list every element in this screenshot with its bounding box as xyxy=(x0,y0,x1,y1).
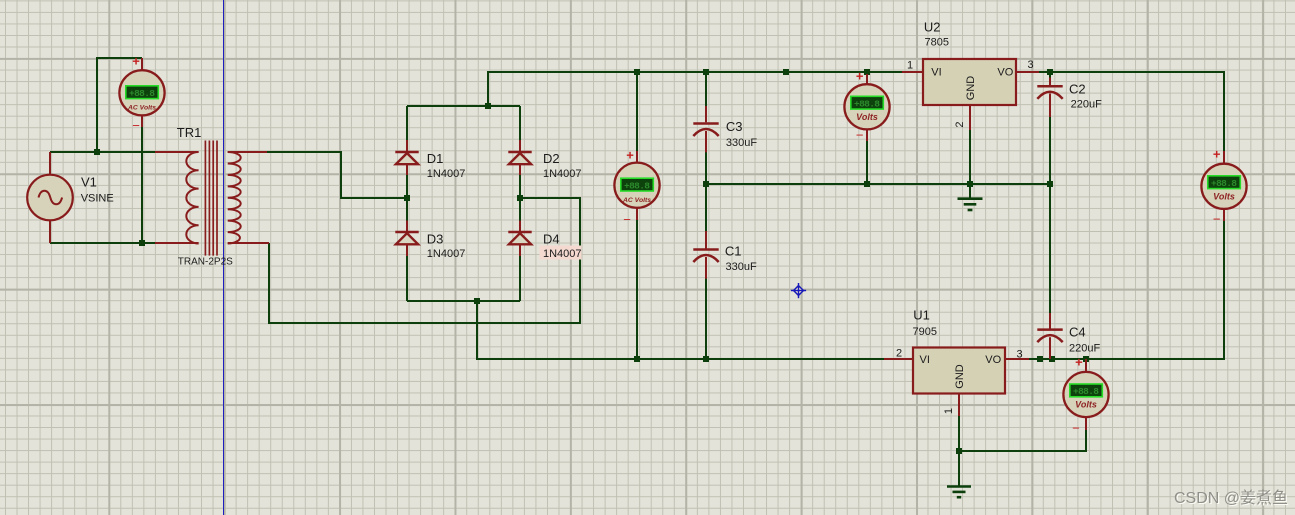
origin marker xyxy=(791,283,806,298)
wire bridge bottom rail xyxy=(407,300,520,302)
U1 output voltmeter pin stub top xyxy=(1085,359,1087,372)
svg-text:−: − xyxy=(1213,212,1221,227)
svg-text:AC Volts: AC Volts xyxy=(127,105,156,112)
svg-text:+88.8: +88.8 xyxy=(129,88,155,99)
U2 input voltmeter pin stub top xyxy=(866,74,868,85)
diode D3 xyxy=(395,232,418,244)
wire ground mid rail xyxy=(706,183,1050,185)
AC out voltmeter pin stub bottom xyxy=(636,207,638,220)
svg-text:D4: D4 xyxy=(543,232,560,247)
diode D4 xyxy=(508,232,531,244)
wire secondary top to bridge left node xyxy=(266,152,407,198)
junction top rail at C3 xyxy=(703,69,709,75)
svg-text:Volts: Volts xyxy=(856,112,878,122)
wire bridge left column middle (D1 anode to D3 cathode) xyxy=(406,174,408,223)
junction mid rail at C3 C1 xyxy=(703,181,709,187)
wire bridge right column upper (D2 cathode) xyxy=(519,106,521,141)
junction U1 ground node xyxy=(956,448,962,454)
svg-text:VO: VO xyxy=(997,67,1013,79)
wire U1 output voltmeter bottom to U1 GND junction xyxy=(959,429,1086,451)
capacitor C1 xyxy=(693,250,718,263)
diode D1 cathode stem xyxy=(406,140,408,152)
wire C2 bottom through mid rail to C4 top xyxy=(1049,116,1051,314)
junction mid rail at U2 ground xyxy=(967,181,973,187)
svg-text:TR1: TR1 xyxy=(177,125,202,140)
voltmeter M3 at U2 input xyxy=(844,84,889,129)
wire bridge right column middle (D2 anode to D4 cathode) xyxy=(519,174,521,223)
svg-text:VI: VI xyxy=(920,354,930,366)
wire U2 GND pin to mid rail xyxy=(969,129,971,184)
wire U2 VO rail to right voltmeter xyxy=(1038,72,1224,164)
diode D3 cathode stem xyxy=(406,221,408,233)
junction top rail at U2 input meter xyxy=(864,69,870,75)
junction top rail at AC out meter xyxy=(634,69,640,75)
right voltmeter pin stub top xyxy=(1223,151,1225,165)
junction output rail left xyxy=(1037,356,1043,362)
svg-text:Volts: Volts xyxy=(1075,400,1097,410)
svg-text:C3: C3 xyxy=(726,119,743,134)
V1 pin stub top xyxy=(49,152,51,175)
diode D1 xyxy=(395,152,418,164)
capacitor C1 top stem xyxy=(705,231,707,249)
svg-text:VSINE: VSINE xyxy=(81,193,114,205)
transformer secondary pin bottom xyxy=(228,242,269,244)
svg-text:220uF: 220uF xyxy=(1071,98,1102,110)
wire bridge left column upper (D1 cathode) xyxy=(406,106,408,141)
svg-text:3: 3 xyxy=(1016,348,1022,360)
svg-text:1N4007: 1N4007 xyxy=(543,168,582,180)
svg-text:1: 1 xyxy=(943,408,955,414)
wire C2 top stub xyxy=(1049,72,1051,79)
diode D1 anode stem xyxy=(406,164,408,176)
U2 VO pin stub xyxy=(1016,71,1039,73)
svg-text:330uF: 330uF xyxy=(726,261,757,273)
svg-text:C4: C4 xyxy=(1069,325,1086,340)
wire U2 input voltmeter bottom to mid rail xyxy=(866,128,868,184)
svg-text:U1: U1 xyxy=(913,307,930,322)
wire AC out voltmeter top column xyxy=(636,72,638,163)
U2 GND pin stub xyxy=(969,105,971,130)
junction output rail at U1 output meter xyxy=(1083,356,1089,362)
svg-text:TRAN-2P2S: TRAN-2P2S xyxy=(178,257,233,268)
capacitor C3 top stem xyxy=(705,106,707,122)
U1 GND pin stub xyxy=(958,394,960,417)
capacitor C2 xyxy=(1037,86,1062,99)
svg-text:C1: C1 xyxy=(725,244,742,259)
svg-text:220uF: 220uF xyxy=(1069,343,1100,355)
svg-text:+88.8: +88.8 xyxy=(854,99,880,110)
voltmeter M2 AC across secondary output xyxy=(614,163,659,208)
svg-text:+88.8: +88.8 xyxy=(1211,178,1237,189)
D4 value highlight xyxy=(540,246,582,260)
junction output rail at C4 xyxy=(1049,356,1055,362)
capacitor C3 xyxy=(693,124,718,137)
wire AC out voltmeter bottom column xyxy=(636,208,638,359)
ground symbol at U2 GND xyxy=(958,199,983,210)
svg-text:GND: GND xyxy=(954,364,966,389)
junction bridge right mid node xyxy=(517,195,523,201)
wire U1 GND pin down to ground xyxy=(958,415,960,486)
svg-text:+: + xyxy=(1075,355,1083,370)
junction mid rail at C2 C4 xyxy=(1047,181,1053,187)
wire positive rail riser and top rail to U2 VI xyxy=(488,72,902,106)
wire secondary bottom down right up to bridge right node xyxy=(269,198,580,323)
svg-text:+: + xyxy=(626,148,634,163)
capacitor C4 xyxy=(1037,330,1062,343)
svg-text:3: 3 xyxy=(1027,59,1033,71)
diode D3 anode stem xyxy=(406,244,408,257)
svg-text:D3: D3 xyxy=(427,232,444,247)
wire bridge left column lower (D3 anode) xyxy=(406,255,408,301)
svg-text:+: + xyxy=(1213,147,1221,162)
transformer TR1 primary winding xyxy=(186,152,198,244)
transformer primary pin bottom xyxy=(155,242,199,244)
svg-text:C2: C2 xyxy=(1069,82,1086,97)
svg-text:+: + xyxy=(132,54,140,69)
svg-text:1N4007: 1N4007 xyxy=(427,248,466,260)
U1 VI pin stub xyxy=(884,358,913,360)
AC out voltmeter pin stub top xyxy=(636,151,638,164)
U1 output voltmeter pin stub bottom xyxy=(1085,417,1087,430)
V1 sine source body xyxy=(27,175,73,221)
junction mid rail at U2 input meter xyxy=(864,181,870,187)
diode D4 cathode stem xyxy=(519,221,521,233)
svg-text:VI: VI xyxy=(931,67,941,79)
wire U2 input voltmeter top stub xyxy=(866,72,868,85)
ground symbol at U1 GND xyxy=(947,487,971,498)
capacitor C4 bottom stem xyxy=(1049,337,1051,359)
transformer primary pin top xyxy=(155,151,199,153)
svg-text:+88.8: +88.8 xyxy=(624,180,650,191)
transformer TR1 secondary winding xyxy=(228,152,241,244)
svg-text:V1: V1 xyxy=(81,175,97,190)
svg-text:2: 2 xyxy=(954,121,966,127)
wire bridge top rail xyxy=(407,105,520,107)
wire negative riser from bridge bottom to negative rail xyxy=(477,301,885,359)
svg-text:1: 1 xyxy=(907,60,913,72)
junction bridge bottom rail xyxy=(474,298,480,304)
svg-text:+: + xyxy=(856,69,864,84)
junction top rail at C2 xyxy=(1047,69,1053,75)
capacitor C1 bottom stem xyxy=(705,257,707,279)
AC voltmeter V-left pin stub top xyxy=(141,58,143,71)
voltmeter M1 AC across primary xyxy=(119,70,164,115)
junction bridge left mid node xyxy=(404,195,410,201)
wire from AC voltmeter plus up-left to primary top node xyxy=(97,58,142,152)
junction primary bottom node xyxy=(139,240,145,246)
svg-text:VO: VO xyxy=(985,354,1001,366)
svg-text:+88.8: +88.8 xyxy=(1073,386,1099,397)
diode D4 anode stem xyxy=(519,244,521,257)
svg-text:D1: D1 xyxy=(427,151,444,166)
wire C1 bottom to negative rail xyxy=(705,277,707,359)
wire primary bottom rail xyxy=(50,242,160,244)
junction primary top node xyxy=(94,149,100,155)
svg-text:GND: GND xyxy=(965,76,977,101)
svg-text:−: − xyxy=(1072,421,1080,436)
junction negative rail at AC out meter xyxy=(634,356,640,362)
svg-text:−: − xyxy=(132,118,140,133)
junction negative rail at C1 xyxy=(703,356,709,362)
junction bridge top rail riser xyxy=(485,103,491,109)
transformer secondary pin top xyxy=(228,151,267,153)
capacitor C3 bottom stem xyxy=(705,131,707,152)
svg-text:U2: U2 xyxy=(924,19,941,34)
transformer TR1 core xyxy=(205,141,217,256)
wire AC voltmeter minus down to primary bottom rail xyxy=(141,114,143,243)
right voltmeter pin stub bottom xyxy=(1223,208,1225,221)
svg-text:1N4007: 1N4007 xyxy=(543,248,582,260)
svg-text:330uF: 330uF xyxy=(726,137,757,149)
svg-text:CSDN @姜煮鱼: CSDN @姜煮鱼 xyxy=(1174,489,1288,507)
wire C3 top column xyxy=(705,72,707,107)
svg-text:1N4007: 1N4007 xyxy=(427,168,466,180)
capacitor C2 top stem xyxy=(1049,78,1051,86)
svg-text:Volts: Volts xyxy=(1213,191,1235,201)
wire ground stub below mid rail at U2 xyxy=(969,184,971,198)
svg-text:D2: D2 xyxy=(543,151,560,166)
capacitor C4 top stem xyxy=(1049,313,1051,329)
diode D2 anode stem xyxy=(519,164,521,176)
svg-text:AC Volts: AC Volts xyxy=(622,197,651,204)
AC voltmeter V-left pin stub bottom xyxy=(141,114,143,127)
diode D2 xyxy=(508,152,531,164)
wire C3 bottom to mid rail xyxy=(705,151,707,232)
U2 VI pin stub xyxy=(902,71,923,73)
U1 VO pin stub xyxy=(1005,358,1029,360)
voltmeter M4 at outputs right xyxy=(1201,164,1246,209)
wire bridge right column lower (D4 anode) xyxy=(519,255,521,301)
wire right voltmeter minus down to output rail xyxy=(1029,209,1224,359)
wire primary top rail xyxy=(50,151,160,153)
diode D2 cathode stem xyxy=(519,140,521,152)
voltmeter M5 at U1 output xyxy=(1063,372,1108,417)
svg-text:−: − xyxy=(856,128,864,143)
regulator U1 body xyxy=(913,348,1005,394)
svg-text:−: − xyxy=(623,212,631,227)
V1 pin stub bottom xyxy=(49,220,51,243)
junction top rail mid xyxy=(783,69,789,75)
sheet border blue line xyxy=(223,0,225,515)
capacitor C2 bottom stem xyxy=(1049,94,1051,118)
svg-text:7805: 7805 xyxy=(925,37,949,49)
svg-text:2: 2 xyxy=(896,347,902,359)
U2 input voltmeter pin stub bottom xyxy=(866,128,868,141)
svg-text:7905: 7905 xyxy=(913,326,937,338)
regulator U2 body xyxy=(923,59,1016,105)
